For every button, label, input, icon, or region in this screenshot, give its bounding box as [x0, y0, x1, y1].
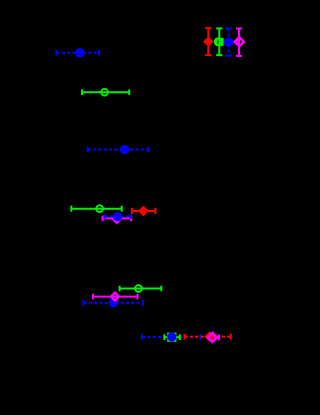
row D: green horizontal error bar — [71, 206, 121, 212]
row C: blue filled circle marker — [120, 145, 129, 154]
top cluster: green open circle marker — [215, 38, 222, 45]
row E: blue filled circle marker — [109, 298, 118, 307]
row E: blue dashed horizontal error bar — [83, 300, 143, 306]
row D: blue dashed horizontal error bar — [105, 214, 131, 219]
top cluster: blue dashed vertical error bar — [225, 28, 232, 56]
row B: green open circle marker — [101, 89, 108, 96]
top cluster: green open square marker — [217, 39, 223, 45]
top cluster: magenta vertical error bar — [236, 29, 242, 56]
top cluster: green vertical error bar — [216, 28, 222, 55]
top cluster: blue filled circle marker — [224, 37, 233, 46]
row E: green horizontal error bar — [120, 286, 162, 292]
top cluster: red filled diamond marker — [203, 36, 213, 46]
row D: blue filled circle marker — [113, 212, 122, 221]
row F: blue filled circle marker — [167, 332, 176, 341]
row C: blue dashed horizontal error bar — [88, 147, 149, 152]
row E: magenta open small circle marker — [112, 294, 118, 300]
row F: green open square marker — [168, 334, 175, 341]
row F: green horizontal error bar — [164, 334, 180, 340]
row F: red filled diamond marker — [204, 331, 215, 342]
row E: magenta open diamond marker — [111, 292, 119, 300]
top cluster: magenta open small circle marker — [237, 39, 243, 45]
top cluster: magenta open diamond marker — [234, 37, 244, 47]
row F: magenta open small circle marker — [209, 334, 215, 340]
row F: blue dashed horizontal error bar — [142, 334, 200, 340]
row A: blue dashed horizontal error bar — [57, 50, 100, 55]
row D: magenta open small circle marker — [114, 216, 120, 222]
row F: magenta horizontal error bar — [206, 335, 219, 341]
row D: green open circle marker — [96, 205, 103, 212]
row A: blue filled circle marker — [75, 48, 84, 57]
row E: green open circle marker — [135, 285, 142, 292]
row F: magenta open diamond marker — [208, 333, 217, 342]
row D: magenta open diamond marker — [112, 214, 121, 223]
row B: green horizontal error bar — [82, 89, 129, 95]
row D: magenta horizontal error bar — [103, 216, 132, 222]
row E: magenta horizontal error bar — [93, 294, 138, 300]
top cluster: red vertical error bar — [205, 28, 211, 55]
row D: red horizontal error bar — [132, 208, 156, 214]
row D: red filled diamond marker — [138, 206, 149, 217]
row F: red dashed horizontal error bar — [185, 334, 231, 340]
